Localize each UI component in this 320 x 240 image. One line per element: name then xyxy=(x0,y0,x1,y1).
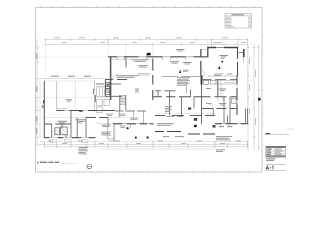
bottom dimension ticks xyxy=(44,141,247,148)
patio note text center xyxy=(157,123,174,126)
wall y108.5 right-center xyxy=(202,108,238,110)
right rooms labels xyxy=(206,88,227,105)
bottom-right exterior wall y123.7 xyxy=(215,123,248,125)
title underline dotted xyxy=(61,162,78,164)
left wall chimney mass xyxy=(43,100,44,103)
bottom-left windows xyxy=(49,137,88,139)
mid-right verticals xyxy=(218,80,230,124)
drawing title ascenders xyxy=(40,160,58,162)
top-center exterior wall xyxy=(108,56,208,58)
right rooms bath fixtures xyxy=(204,81,237,104)
sheet divider line xyxy=(266,163,286,165)
great room faint outline xyxy=(45,97,110,99)
left wing interior faint line xyxy=(44,116,86,118)
schedule table box xyxy=(225,14,252,28)
right dimension ticks xyxy=(247,47,260,147)
bottom dark row xyxy=(266,155,286,157)
mud room dark marks xyxy=(188,108,197,121)
step wall y115.5 center xyxy=(155,115,215,117)
top dimension line 1 xyxy=(44,39,248,41)
upper-right wing window gap marks xyxy=(216,47,224,49)
window symbols below bottom wall xyxy=(50,140,88,143)
row values xyxy=(275,149,283,155)
bottom band interior faint lines xyxy=(96,122,152,124)
dining room label xyxy=(176,49,185,51)
bath partition bars xyxy=(105,88,110,92)
bottom center-left wall y117.5 xyxy=(86,117,108,119)
breakfast faint line xyxy=(108,116,125,118)
mid-right horizontal wall y84 xyxy=(215,83,237,85)
entry niche arc xyxy=(202,71,204,78)
door arc center xyxy=(113,74,119,80)
bottom border tick marks xyxy=(46,172,249,174)
closet lower cabinets xyxy=(97,100,110,113)
right dimension text xyxy=(249,58,256,125)
hallway notes text xyxy=(117,75,139,77)
door post on wall xyxy=(79,110,82,112)
top-center wall window sills xyxy=(117,56,194,58)
revision faint marks xyxy=(287,128,294,131)
door arcs lower right xyxy=(165,104,213,116)
interior wall x126 xyxy=(125,57,127,68)
left dimension ticks and text xyxy=(37,48,39,138)
upper-right wing top wall xyxy=(208,47,239,49)
top-left dim text xyxy=(51,76,91,77)
mid-right horizontal wall y79.8 xyxy=(202,79,238,81)
wall x94.3 dark marks xyxy=(94,89,96,103)
right border tick marks xyxy=(262,18,264,161)
top dimension text xyxy=(54,37,246,43)
schedule row text left xyxy=(226,17,235,28)
porch label xyxy=(120,126,126,128)
porch text rows lower xyxy=(102,132,112,136)
bottom wall center-right y131.5 xyxy=(155,131,181,133)
row labels xyxy=(266,149,272,155)
top dimension line 2 xyxy=(44,43,248,45)
scale circle divider xyxy=(87,165,92,167)
bottom-left exterior wall xyxy=(44,137,95,139)
filled tag blob near kitchen top xyxy=(146,53,151,56)
lower-left room verticals xyxy=(52,111,86,138)
porch steps bottom xyxy=(108,139,115,141)
breakfast tag dot xyxy=(127,127,129,129)
kitchen cabinet ticks xyxy=(118,57,144,60)
kitchen label text xyxy=(132,59,149,62)
top-left patio edge xyxy=(44,80,95,82)
thick entry wall xyxy=(201,76,203,85)
north arrow filled xyxy=(218,66,220,69)
drawing title text xyxy=(40,161,61,163)
fireplace hatch 1 xyxy=(55,130,60,136)
porch corner vertical xyxy=(107,118,109,125)
wall x56.8 xyxy=(56,81,58,111)
patio tag dot big xyxy=(194,125,197,128)
door jamb ticks below top wall xyxy=(117,57,186,59)
entry wall lower xyxy=(201,85,203,125)
bottom-right windows xyxy=(222,123,241,125)
bedroom tag dot xyxy=(221,61,223,63)
pantry arrow text xyxy=(183,70,189,72)
bath fixture fills xyxy=(107,84,109,87)
bottom wall center y123.8 xyxy=(113,123,154,125)
lower-left rooms: wall y124 xyxy=(44,123,71,125)
porch tag dot xyxy=(147,136,149,138)
fireplace block 1 xyxy=(55,128,60,135)
schedule right column divider xyxy=(247,16,249,28)
wing closet line xyxy=(208,75,238,77)
wall y79.5 center-left xyxy=(105,79,127,81)
step dark mark xyxy=(213,125,216,128)
entry wall verticals upper xyxy=(200,49,202,76)
bottom-right faint line xyxy=(215,143,242,145)
bottom-right small text xyxy=(216,149,225,151)
fireplace block 2 xyxy=(61,127,68,135)
upper-right wing right wall xyxy=(237,47,239,76)
fireplace hatch 2 xyxy=(61,129,68,135)
closet detail block xyxy=(97,87,110,97)
top-left dimension line (patio) xyxy=(40,77,108,79)
wall tick below xyxy=(130,124,132,128)
kitchen island text xyxy=(138,65,148,67)
foyer label xyxy=(183,62,192,64)
bottom divider line xyxy=(266,170,286,172)
kitchen counter along top wall xyxy=(112,59,151,61)
vertical line right of wing xyxy=(243,57,245,62)
window marks on y110.5 xyxy=(65,110,89,112)
center small text rows xyxy=(106,114,139,120)
core wall hatch marks xyxy=(110,60,112,98)
gallery wall y76.6 xyxy=(162,76,202,78)
center interior verticals xyxy=(158,90,194,116)
mid-right horizontal wall y96.8 xyxy=(202,96,238,98)
vertical x213 lower xyxy=(212,109,214,116)
right dimension lines xyxy=(247,44,249,150)
windows on y123.8 xyxy=(122,123,150,125)
drawing title number xyxy=(37,162,38,164)
upper-right wing left wall xyxy=(207,47,209,58)
faint extension line across great room xyxy=(38,56,108,58)
dining room label xyxy=(170,61,179,63)
bath fixtures left of core xyxy=(105,83,110,95)
porch tag dot 2 xyxy=(135,137,137,139)
general notes text block center xyxy=(177,77,190,85)
row lines xyxy=(266,150,286,156)
center-bottom tiny text row xyxy=(166,115,183,118)
wall x75.5 faint xyxy=(75,81,77,111)
pantry north arrow xyxy=(179,69,181,73)
left dimension line xyxy=(36,40,38,147)
top dimension ticks xyxy=(46,38,248,45)
bottom wall right y134 xyxy=(188,133,215,135)
bottom dimension text xyxy=(48,140,241,144)
chimney bar right of wing xyxy=(243,49,245,57)
hall label xyxy=(76,119,87,123)
hall vertical x186.5 xyxy=(186,84,188,93)
header row dark xyxy=(266,146,286,148)
nook label xyxy=(102,125,112,127)
revision line xyxy=(266,133,290,135)
left exterior wall xyxy=(43,81,45,138)
laundry label xyxy=(135,89,139,93)
breakfast wall y111 xyxy=(116,110,147,112)
porch text block below left wing xyxy=(79,147,89,154)
wall y84 center-left xyxy=(96,83,121,85)
bath side wall xyxy=(104,80,106,96)
interior wall x152.8 xyxy=(152,59,154,101)
right rooms closet lines xyxy=(219,80,236,95)
bottom-right interior verticals xyxy=(228,109,248,124)
left dimension line 2 xyxy=(39,78,41,138)
powder label xyxy=(165,106,172,112)
schedule row marks right xyxy=(249,17,251,28)
schedule title text xyxy=(232,14,245,15)
right exterior wall upper xyxy=(236,76,238,116)
study label xyxy=(58,121,68,124)
center hall walls y96.8 xyxy=(153,96,202,98)
entry jamb wall xyxy=(202,49,208,51)
step text labels xyxy=(163,135,184,138)
revision label dark xyxy=(266,133,271,134)
scale north circle xyxy=(87,164,92,169)
sheet number A-1 xyxy=(266,166,273,170)
great room sofa line xyxy=(57,108,68,110)
bottom dimension lines xyxy=(40,141,248,143)
core wall vertical (hatched) xyxy=(110,57,112,100)
title block table xyxy=(266,146,286,157)
great room label xyxy=(66,99,73,101)
porch side verticals xyxy=(108,124,115,141)
bedroom room label xyxy=(220,55,229,58)
center hall walls y90.8 xyxy=(155,90,176,92)
right rooms door arcs xyxy=(215,97,227,101)
stair side walls xyxy=(120,95,126,111)
bedroom label underline xyxy=(221,57,224,60)
top border tick marks xyxy=(41,6,255,8)
chimney connector xyxy=(239,52,243,54)
faint extension verticals xyxy=(46,40,248,107)
right wall window marks xyxy=(236,85,238,104)
bottom-right notes text xyxy=(216,136,232,140)
interior wall y110.5 (left wing) xyxy=(57,110,116,112)
address text lines xyxy=(266,158,276,161)
right dim dark blob xyxy=(258,98,261,101)
breakfast verticals xyxy=(119,111,143,124)
stairs xyxy=(120,96,126,105)
wall y96.3 xyxy=(105,95,122,97)
wall x94.3 xyxy=(93,81,95,111)
schedule title divider xyxy=(225,15,252,17)
wing closet marks xyxy=(214,74,233,76)
sheet border frame xyxy=(36,8,263,173)
kitchen counter dashes xyxy=(138,74,150,76)
window marks below right wall xyxy=(219,126,232,127)
